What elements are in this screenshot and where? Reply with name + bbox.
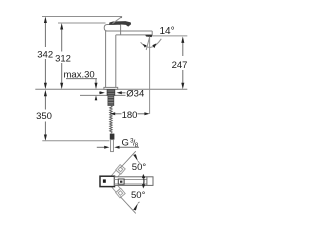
svg-text:180: 180 bbox=[122, 110, 138, 121]
flexible hose bbox=[110, 106, 112, 134]
swivel arc bbox=[143, 176, 145, 186]
14 deg arc bbox=[141, 39, 162, 48]
extension line top of body (312 ref) bbox=[58, 22, 106, 24]
countertop top line bbox=[35, 88, 187, 90]
plan view head square bbox=[100, 176, 115, 186]
dimension 312 line bbox=[61, 28, 63, 85]
countertop bottom line bbox=[80, 94, 126, 96]
hose end nut bbox=[110, 134, 115, 140]
14 deg tilted line bbox=[146, 37, 149, 50]
max.30 down arrow bbox=[95, 79, 97, 84]
hose connector tube bbox=[111, 140, 114, 152]
faucet column left edge bbox=[105, 31, 107, 87]
swivel arc arrowheads bbox=[142, 174, 145, 178]
spout arm top edge bbox=[106, 30, 153, 32]
svg-text:14°: 14° bbox=[160, 26, 175, 37]
dimension 180 left arrow bbox=[115, 113, 122, 115]
50deg lower leader bbox=[120, 197, 136, 214]
dimension 312 arrows bbox=[60, 23, 63, 89]
dimension 180 right arrow bbox=[138, 113, 146, 115]
dimension 247 arrows bbox=[181, 36, 184, 89]
lever raised tip tick bbox=[120, 17, 122, 19]
14 deg vertical reference / spout drop line bbox=[149, 37, 151, 114]
svg-text:312: 312 bbox=[55, 53, 71, 64]
svg-text:50°: 50° bbox=[132, 162, 147, 173]
50deg upper leader bbox=[120, 151, 136, 168]
svg-text:Ø34: Ø34 bbox=[126, 88, 144, 99]
plan view lever bar end cap line bbox=[146, 177, 148, 186]
14 deg arc arrowheads bbox=[143, 44, 147, 48]
plan view cartridge square bbox=[118, 179, 124, 184]
faucet column right edge bbox=[115, 35, 117, 88]
head-arm step bbox=[120, 31, 122, 35]
lever raised position line bbox=[113, 17, 122, 24]
lever handle (closed) bbox=[109, 21, 131, 27]
base flange bbox=[104, 87, 118, 89]
dimension 342 arrows bbox=[44, 17, 47, 90]
spout arm end cap bbox=[151, 31, 153, 35]
diameter 34 leader right bbox=[121, 92, 126, 94]
G 3/8 dimension left bbox=[97, 146, 105, 148]
dimension 247 line bbox=[182, 41, 184, 85]
dimension 342 line bbox=[44, 21, 46, 85]
extension line top of lever (342 ref) bbox=[42, 16, 122, 18]
plan view head inner dark square bbox=[103, 179, 106, 182]
plan view rotated lever lower (+50deg) bbox=[111, 183, 125, 198]
max.30 up arrow below counter bbox=[95, 98, 97, 101]
plan view lever bar inner lines bbox=[115, 178, 147, 180]
aerator outlet tip bbox=[145, 35, 152, 37]
diameter 34 leader left bbox=[99, 92, 101, 94]
svg-text:50°: 50° bbox=[131, 190, 146, 201]
max.30 leader underline bbox=[66, 78, 97, 80]
spout arm bottom edge bbox=[116, 34, 152, 36]
faucet head block bbox=[104, 25, 120, 32]
247 extension line at spout level bbox=[152, 35, 187, 37]
threaded shank nut bbox=[107, 89, 115, 95]
G 3/8 dimension right bbox=[119, 146, 139, 148]
threaded shank bbox=[108, 95, 114, 105]
svg-text:342: 342 bbox=[37, 49, 53, 60]
plan view lever bar bbox=[115, 177, 154, 186]
dimension 350 line bbox=[44, 95, 46, 137]
dimension 350 arrows bbox=[44, 90, 47, 141]
svg-text:350: 350 bbox=[36, 111, 52, 122]
plan view rotated lever upper (-50deg) bbox=[111, 165, 125, 180]
svg-text:247: 247 bbox=[172, 60, 188, 71]
hose end reference line bbox=[42, 140, 109, 142]
